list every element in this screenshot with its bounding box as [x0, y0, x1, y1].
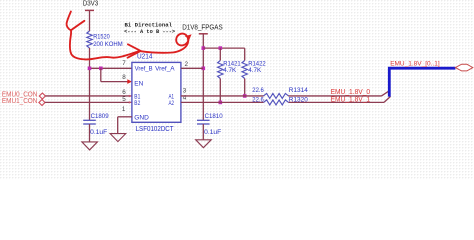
svg-text:LSF0102DCT: LSF0102DCT — [136, 126, 175, 133]
wire C1809 to gnd — [89, 124, 91, 142]
svg-text:22.6: 22.6 — [252, 87, 264, 94]
wire pin1 — [118, 117, 132, 134]
junction — [88, 67, 92, 71]
port EMU1_CON — [2, 98, 45, 105]
ground (C1810) — [196, 140, 212, 148]
ground (pin 1) — [110, 134, 126, 142]
junction — [99, 67, 103, 71]
wire bus entry 0 — [382, 91, 390, 96]
svg-text:2: 2 — [185, 61, 189, 68]
svg-text:EMU_1.8V_1: EMU_1.8V_1 — [331, 97, 371, 104]
wire Vref_B column — [89, 48, 91, 120]
resistor R1314 (22.6) — [252, 87, 308, 98]
svg-text:EMU_1.8V_0: EMU_1.8V_0 — [331, 89, 371, 96]
svg-text:Vref_A: Vref_A — [155, 66, 175, 73]
wire A1 net — [181, 95, 382, 97]
red annotation long stroke with mid arrowhead — [86, 51, 140, 59]
svg-text:U214: U214 — [137, 53, 153, 60]
svg-text:22.6: 22.6 — [252, 97, 264, 104]
power D1V8_FPGAS — [182, 24, 223, 33]
resistor R1422 — [242, 48, 266, 96]
svg-text:D1V8_FPGAS: D1V8_FPGAS — [182, 24, 223, 31]
wire C1810 to gnd — [202, 124, 204, 140]
junction — [202, 46, 206, 50]
svg-text:1: 1 — [122, 106, 126, 113]
svg-text:D3V3: D3V3 — [83, 0, 99, 8]
svg-text:0.1uF: 0.1uF — [204, 129, 221, 136]
svg-text:R1520: R1520 — [93, 34, 110, 41]
bus EMU_1.8V_[0..1] — [389, 68, 455, 96]
junction — [219, 101, 223, 105]
port EMU0_CON — [2, 92, 46, 99]
resistor R1421 — [218, 48, 241, 102]
power D3V3 — [83, 0, 99, 31]
junction — [202, 67, 206, 71]
capacitor C1810 — [197, 113, 223, 136]
wire EMU1_CON to B2 — [45, 101, 132, 104]
red annotation swoosh to loop arrow — [141, 34, 189, 53]
svg-text:Vref_B: Vref_B — [135, 66, 153, 73]
IC U214 LSF0102DCT — [132, 53, 181, 133]
junction — [243, 94, 247, 98]
svg-text:3: 3 — [183, 87, 187, 94]
wire pin7 Vref_B — [90, 67, 132, 69]
svg-text:200 KOHM: 200 KOHM — [93, 41, 123, 48]
svg-text:EMU_1.8V_[0..1]: EMU_1.8V_[0..1] — [390, 60, 440, 67]
svg-text:<--- A to B --->: <--- A to B ---> — [124, 28, 175, 35]
svg-text:R1314: R1314 — [289, 87, 308, 94]
wire pullup rail — [203, 47, 244, 49]
red annotation fork + tail — [67, 12, 86, 60]
svg-text:C1810: C1810 — [205, 113, 223, 120]
svg-text:4.7K: 4.7K — [248, 67, 262, 74]
wire A2 net — [181, 101, 384, 103]
wire bus entry 1 — [384, 96, 391, 102]
svg-text:R1320: R1320 — [289, 97, 308, 104]
wire D1V8 column — [202, 34, 204, 121]
wire EMU0_CON to B1 — [45, 95, 131, 98]
svg-text:GND: GND — [134, 114, 149, 121]
svg-text:5: 5 — [122, 96, 126, 103]
wire pin2 Vref_A — [181, 67, 203, 69]
ground (C1809) — [82, 142, 98, 150]
svg-text:C1809: C1809 — [91, 113, 109, 120]
svg-text:4.7K: 4.7K — [223, 67, 237, 74]
resistor R1520 — [87, 31, 123, 48]
resistor R1320 (22.6) — [252, 97, 308, 105]
svg-text:0.1uF: 0.1uF — [90, 129, 107, 136]
svg-text:7: 7 — [122, 60, 126, 67]
junction — [219, 46, 223, 50]
off-page connector — [455, 64, 472, 71]
svg-text:A2: A2 — [169, 100, 175, 107]
svg-text:B2: B2 — [134, 100, 140, 107]
capacitor C1809 — [83, 113, 109, 136]
svg-text:EN: EN — [134, 80, 143, 87]
wire EN branch — [101, 68, 132, 84]
svg-text:8: 8 — [122, 74, 126, 81]
note Bi Directional — [124, 21, 175, 35]
svg-text:EMU1_CON: EMU1_CON — [2, 98, 38, 105]
